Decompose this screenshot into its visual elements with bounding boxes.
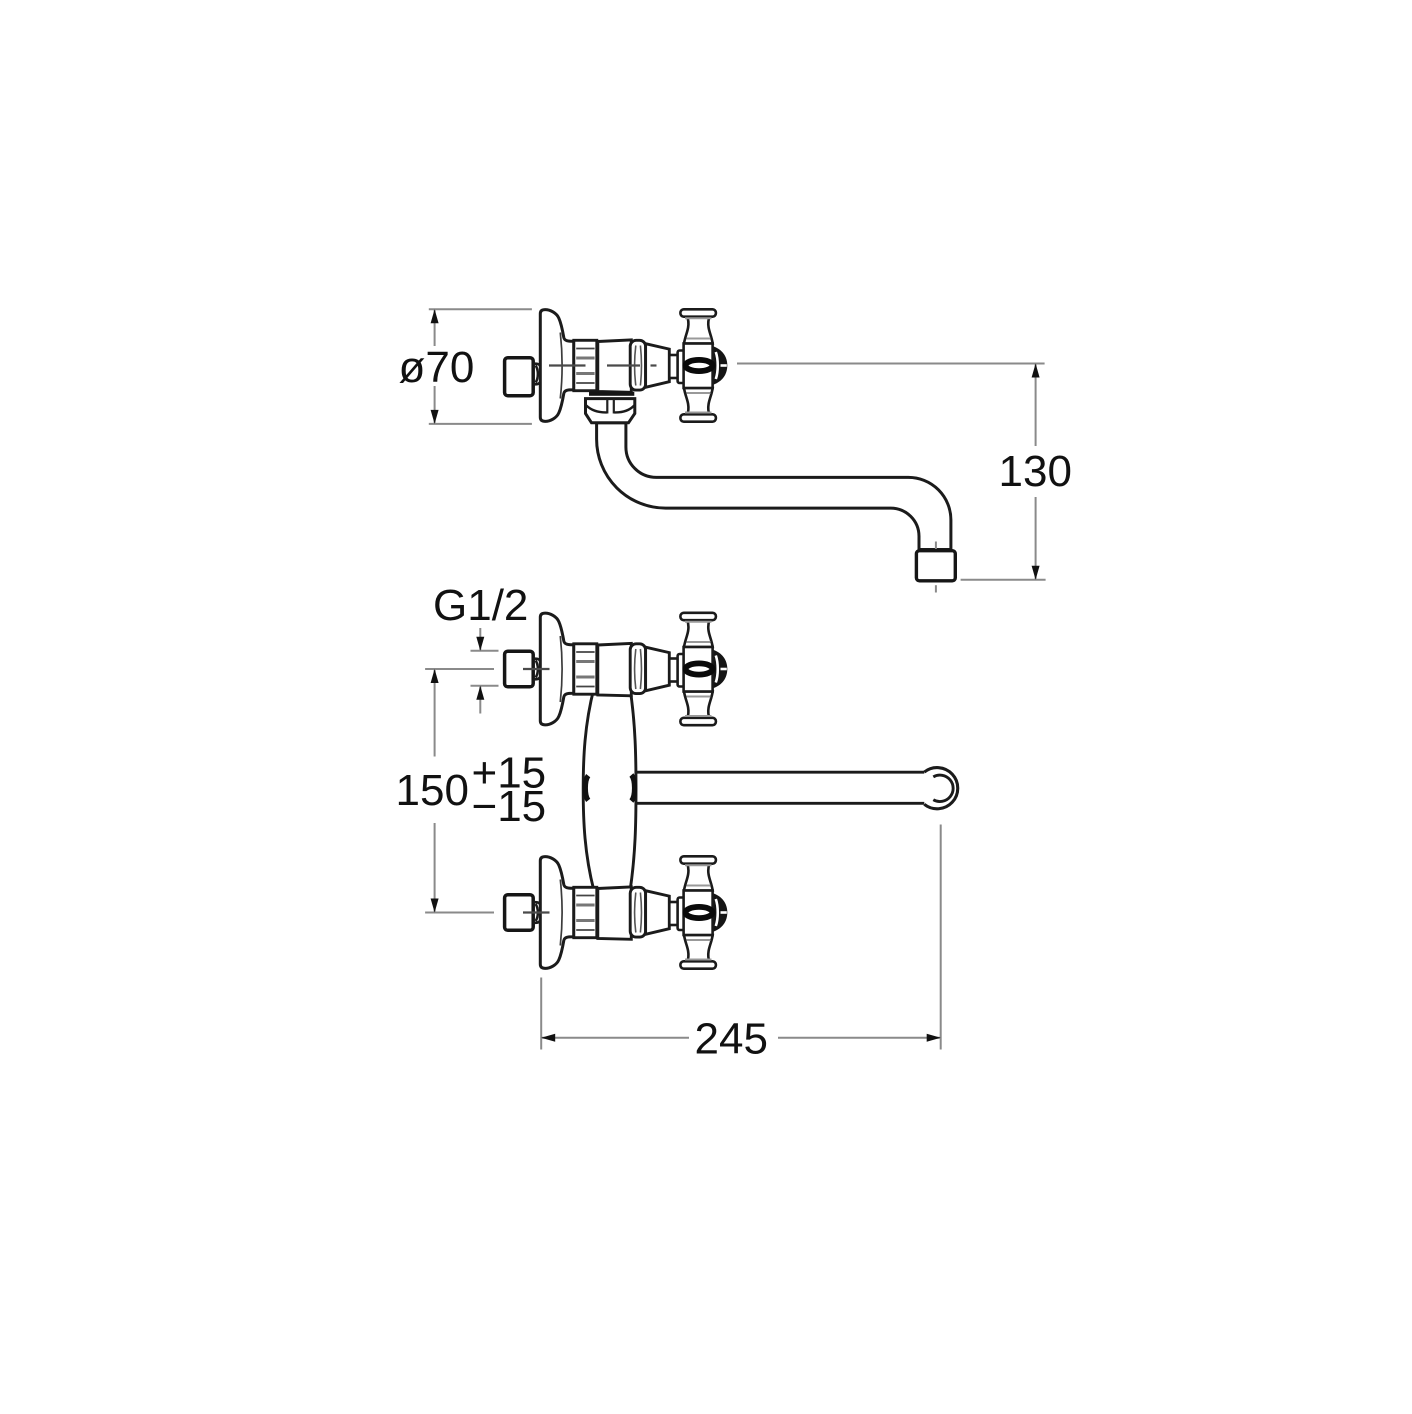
spout (plan view, straight tube) xyxy=(632,772,926,803)
centerlines (plan axes) xyxy=(523,669,550,913)
svg-text:G1/2: G1/2 xyxy=(433,581,528,630)
G1/2 union square xyxy=(505,358,534,396)
valve (side view) xyxy=(540,309,727,421)
union neck xyxy=(533,364,540,385)
svg-text:−15: −15 xyxy=(472,782,547,831)
union neck xyxy=(533,659,540,680)
centerline (side view axis) xyxy=(549,364,657,366)
aerator outlet xyxy=(935,542,937,551)
dimension ø70 xyxy=(429,309,532,424)
dimension 130 xyxy=(737,364,1046,580)
hex nut xyxy=(586,399,635,423)
svg-text:150: 150 xyxy=(396,766,469,815)
spout nut junction bar xyxy=(589,392,634,396)
svg-text:245: 245 xyxy=(695,1015,768,1064)
cold valve (plan) xyxy=(540,856,727,968)
G1/2 union square xyxy=(505,895,534,931)
union neck xyxy=(533,902,540,923)
svg-text:130: 130 xyxy=(999,447,1072,496)
spout (side view, S-shape) xyxy=(597,423,951,550)
mixer body (vertical) xyxy=(583,688,636,891)
dimension 150 tolerance xyxy=(425,669,494,913)
hot valve (plan) xyxy=(540,613,727,725)
dimension 245 xyxy=(541,825,941,1050)
spout socket (dark arcs) xyxy=(585,776,588,801)
G1/2 union square xyxy=(505,651,534,687)
svg-text:ø70: ø70 xyxy=(399,343,475,392)
